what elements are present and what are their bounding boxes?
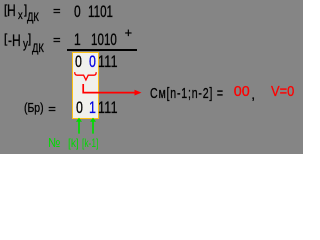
green [k] label [68,137,79,149]
row1 label bracket [ [4,3,7,16]
row2 subscript y [23,37,28,50]
row4 label (Br) [24,101,44,114]
green No label [48,136,61,149]
sum line [67,49,137,51]
row2 label -H [8,33,21,50]
row2 sign digit 1 [74,32,81,49]
red V=0 [271,85,294,99]
row2 label bracket [ [4,32,7,45]
row1 sign digit 0 [74,4,81,21]
green arrow [k] [75,117,83,134]
row3 sign digit 0 [75,54,82,71]
red brace under carry digits [73,69,99,82]
row1 subscript x [18,9,23,21]
plus sign superscript [125,27,132,40]
comma [251,87,255,101]
row1 digits 1101 [88,4,113,21]
row3 digits 111 [98,54,118,71]
highlight box [72,52,99,119]
row1 subscript DK [27,13,39,25]
row4 digits 111 [98,100,118,117]
row1 equals [53,4,61,17]
row1 label H [7,3,16,20]
red arrow to Cm text [78,83,144,97]
row4 sign digit 0 [76,100,83,117]
row2 equals [53,33,61,46]
Cm[n-1;n-2] = text [150,87,224,102]
green [k-1] label [82,137,98,149]
row2 subscript DK [32,44,44,56]
row4 blue digit 1 [89,100,96,117]
row2 label bracket ] [28,32,31,45]
green arrow [k-1] [89,117,97,134]
row4 equals [48,102,56,115]
red 00 [234,85,250,99]
row1 label bracket ] [24,3,27,16]
row3 blue digit 0 [89,54,96,71]
row2 digits 1010 [91,32,117,49]
